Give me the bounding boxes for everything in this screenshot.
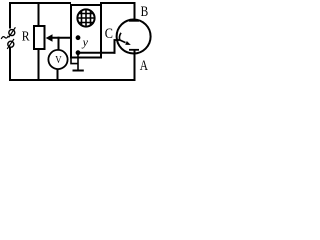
wire ground lead from lower terminal [77, 53, 79, 71]
indicator mesh circle (grid window) [77, 9, 95, 27]
cathode C hook [119, 33, 121, 40]
wire top-right (unit box to electrode B) [100, 2, 136, 4]
electrode B lead [134, 2, 136, 21]
wire cathode entry into tube [114, 39, 120, 41]
wire cathode riser (vertical) [114, 40, 116, 54]
rectifier unit box [71, 5, 101, 58]
wire resistor R bottom lead [38, 49, 40, 81]
node lower output terminal (junction dot) [76, 50, 81, 55]
wire lower terminal to tube cathode (horizontal) [78, 52, 116, 54]
wire resistor R top lead [38, 2, 40, 26]
svg-text:V: V [55, 55, 62, 66]
wire case ground branch [71, 58, 78, 64]
wire left upper (down to AC terminal) [9, 2, 11, 29]
potentiometer wiper arrow [46, 34, 78, 42]
resistor R (potentiometer body) [34, 26, 45, 49]
wire voltmeter bottom lead [57, 69, 59, 82]
node y (upper output terminal, junction dot) [76, 35, 81, 40]
AC source terminal top [9, 27, 16, 37]
AC source tilde ~ [1, 36, 8, 39]
electrode A lead [134, 50, 136, 81]
ground bar [73, 70, 84, 72]
svg-text:B: B [141, 4, 149, 20]
wire voltmeter top lead [58, 37, 60, 51]
tube V2 (x-ray tube envelope) [117, 20, 151, 54]
svg-text:A: A [140, 58, 148, 74]
svg-text:C: C [105, 26, 113, 42]
electrode B plate [129, 20, 139, 22]
AC source terminal bottom [7, 39, 14, 49]
electrode A plate [129, 49, 139, 51]
svg-text:y: y [82, 35, 89, 49]
wire left lower (AC terminal to bottom bus) [9, 47, 11, 81]
svg-text:R: R [22, 30, 30, 45]
electron beam arrow [120, 40, 131, 45]
voltmeter V1 [48, 50, 67, 69]
wire top-left (AC bus to unit box) [9, 2, 71, 4]
wire bottom bus [9, 79, 136, 81]
